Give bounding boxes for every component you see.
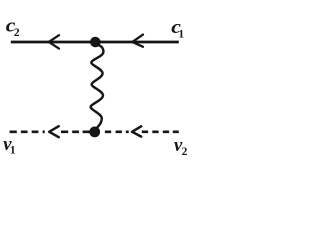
arrowhead on top-left segment (points left) — [49, 35, 59, 48]
arrowhead on bottom-right segment (points left) — [132, 126, 141, 136]
svg-text:1: 1 — [178, 28, 184, 40]
vertex dot (top) — [90, 37, 101, 48]
arrowhead on bottom-left segment (points left) — [49, 126, 59, 137]
wire: bottom dashed line v2 (right of bottom vertex) — [105, 131, 179, 134]
photon propagator (vertical wavy line) — [91, 44, 104, 128]
wire: bottom dashed line v1 (left of bottom vertex) — [10, 131, 90, 134]
vertex dot (bottom) — [89, 126, 100, 137]
svg-text:2: 2 — [182, 146, 188, 158]
svg-text:1: 1 — [10, 145, 16, 157]
wire: top fermion line c2-c1 — [11, 41, 179, 44]
arrowhead on top-right segment (points left) — [132, 35, 143, 47]
svg-text:2: 2 — [14, 27, 20, 39]
